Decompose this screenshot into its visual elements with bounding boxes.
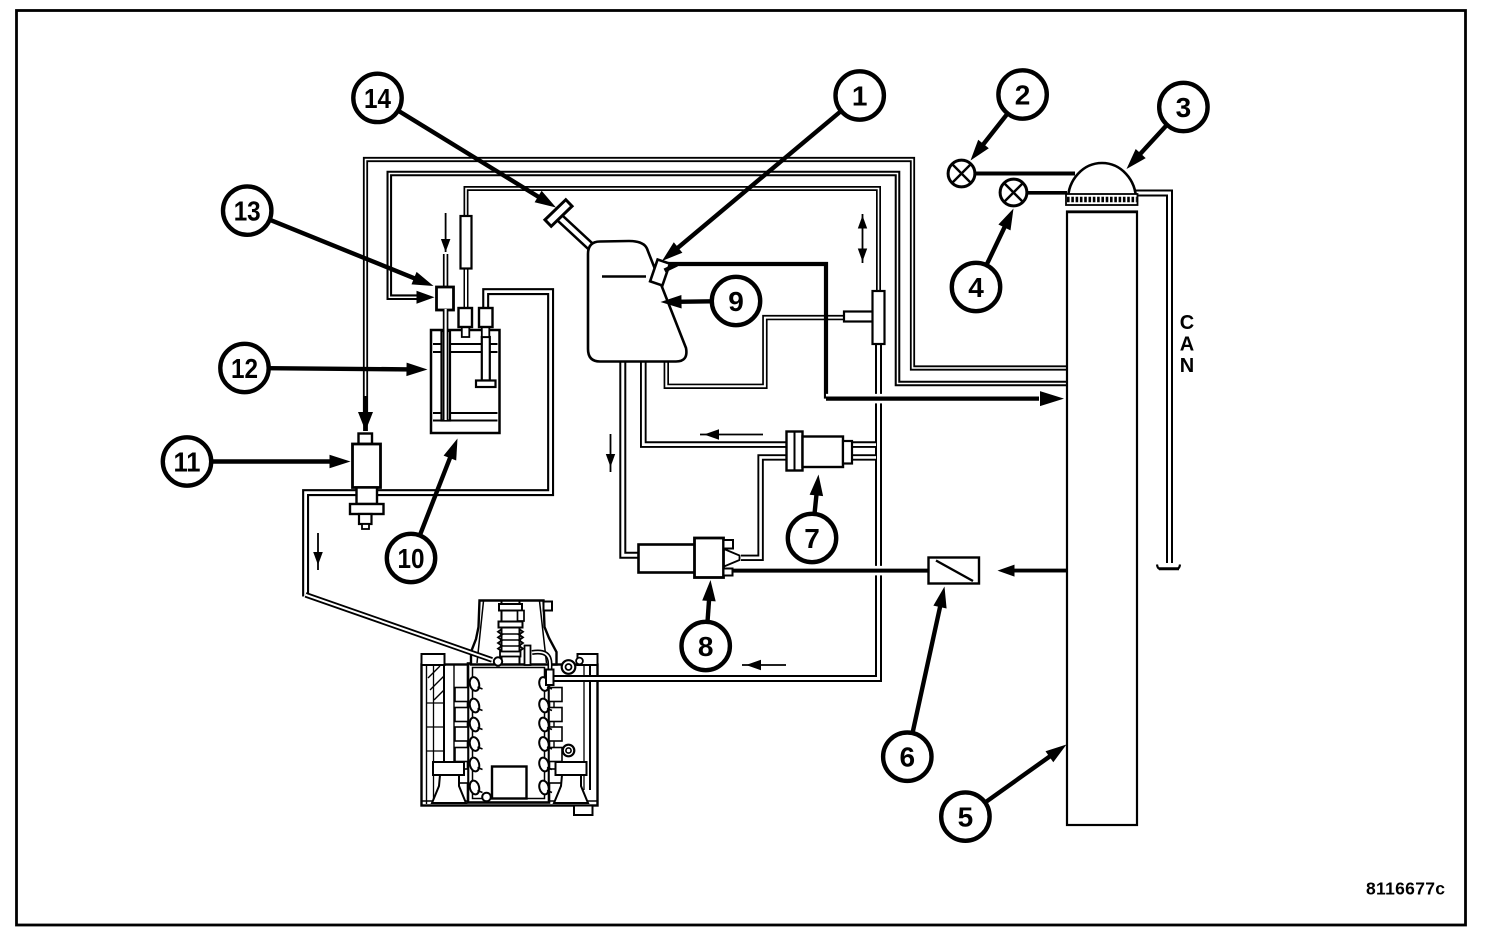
filter (7): [787, 432, 853, 471]
container pickup tube (10): [476, 337, 496, 387]
wire filler neck tube: [561, 219, 596, 251]
wire line: across to canister (over vertical tube): [826, 394, 1039, 404]
fuel tank (9): [588, 241, 686, 362]
callout 13 leader to valve box: [223, 186, 434, 286]
engine hose elbow fitting: [494, 657, 502, 665]
engine assembly: [422, 601, 598, 816]
svg-text:6: 6: [900, 742, 916, 773]
wire tube: fuel tank to filter 7: [643, 361, 876, 445]
svg-text:5: 5: [958, 802, 974, 833]
svg-text:13: 13: [234, 196, 261, 227]
wire tube: detector container to solenoid line: [306, 292, 551, 597]
wire third tube loop: detector fitting to inline connector: [466, 189, 879, 293]
wire tube: fuel tank to filter 8: [623, 361, 640, 555]
canister column (5): [1067, 212, 1137, 826]
filler cap (14): [545, 200, 572, 227]
container rim lines: [433, 344, 498, 421]
container inner tube from valve 13: [442, 331, 451, 421]
wire second vapor tube loop: valve 13 to canister: [389, 174, 1067, 384]
fuel level line inside tank: [602, 275, 646, 278]
inline connector (vertical tube): [873, 291, 885, 344]
callout 5 leader to canister: [941, 745, 1066, 841]
flow arrow left into check valve 6: [998, 565, 1068, 577]
svg-text:10: 10: [398, 543, 425, 574]
callout 3 leader to canister dome: [1127, 83, 1208, 169]
flow arrow left on filter 7 tube: [700, 429, 763, 440]
wire line: valve 2 to canister dome: [974, 172, 1075, 176]
flow arrow down above valve 13: [441, 213, 451, 252]
svg-text:2: 2: [1015, 79, 1031, 110]
svg-text:14: 14: [364, 83, 391, 114]
callout 7 leader to filter 7: [788, 475, 836, 563]
callout 11 leader to solenoid: [163, 437, 351, 485]
flow arrow down beside solenoid line: [313, 533, 323, 570]
callout 2 leader to valve 2: [971, 70, 1047, 160]
callout 8 leader to filter 8: [682, 580, 730, 670]
svg-text:C: C: [1180, 312, 1194, 334]
solenoid valve (11): [350, 434, 384, 530]
wire tube: connector to detector fitting: [464, 268, 469, 309]
callout 14 leader to filler cap: [353, 74, 556, 208]
inline connector on third loop: [461, 216, 472, 269]
container right fitting: [479, 308, 493, 337]
svg-text:8116677c: 8116677c: [1366, 879, 1445, 899]
canister dome (3): [1068, 163, 1136, 200]
service port valve (4): [1000, 179, 1027, 206]
wire tube: solenoid line diagonal to engine throttle body: [306, 595, 492, 660]
svg-text:12: 12: [231, 353, 258, 384]
wire outer vapor tube loop: solenoid 11 to canister: [366, 160, 1068, 415]
wire tube: valve 13 down inside container: [443, 309, 449, 420]
callout 10 leader to container bottom: [387, 439, 458, 583]
wire tube: filter 8 to filter 7 bypass: [741, 457, 876, 557]
svg-text:11: 11: [174, 446, 201, 477]
svg-text:8: 8: [698, 631, 714, 662]
wire tube: fuel tank to tee fitting: [666, 318, 846, 387]
flow arrow down into solenoid 11: [358, 396, 373, 431]
wire line: tank rollover fitting to right and down: [667, 264, 826, 399]
svg-text:4: 4: [968, 272, 984, 303]
wire line: valve 4 to canister band: [1027, 191, 1067, 195]
rollover valve fitting (1): [650, 260, 677, 286]
tee fitting on vertical tube: [844, 312, 874, 322]
wire tube: canister vent down right side: [1135, 193, 1170, 563]
callout 1 leader to rollover valve: [662, 71, 884, 261]
wire tube: inline connector down right side: [875, 343, 882, 662]
svg-text:N: N: [1180, 355, 1194, 377]
valve box (13): [437, 287, 454, 310]
svg-text:1: 1: [852, 80, 868, 111]
wire tube: into valve 13: [443, 254, 448, 289]
wire tube: corner and run left to engine intake: [553, 658, 879, 679]
callout 9 leader to fuel tank: [661, 277, 761, 325]
detector container (12): [431, 330, 500, 433]
flow arrow into valve 13: [417, 291, 435, 304]
check valve (6): [929, 558, 980, 584]
svg-text:9: 9: [728, 286, 744, 317]
flow arrow right into canister: [1040, 391, 1064, 406]
wire line: filter 8 to check valve 6: [732, 566, 928, 576]
svg-text:A: A: [1180, 334, 1194, 356]
svg-text:7: 7: [804, 523, 820, 554]
svg-text:3: 3: [1176, 92, 1192, 123]
service port valve (2): [948, 160, 975, 187]
callout 12 leader to container wall: [220, 344, 427, 392]
vent tube end fitting: [1157, 565, 1180, 570]
callout 4 leader to valve 4: [952, 209, 1014, 312]
engine intake pipe fitting: [546, 670, 554, 686]
wire line: check valve 6 to canister: [1013, 569, 1067, 573]
callout 6 leader to check valve: [883, 587, 947, 781]
flow arrow left above engine tube: [742, 660, 786, 670]
flow arrow down beside tank tube: [606, 434, 615, 472]
filter (8): [639, 538, 740, 578]
canister hatch band: [1066, 194, 1138, 212]
flow arrow up-down on vertical tube: [858, 214, 867, 263]
wire hose: throttle body to intake fitting: [532, 652, 550, 670]
container left fitting: [459, 308, 473, 337]
